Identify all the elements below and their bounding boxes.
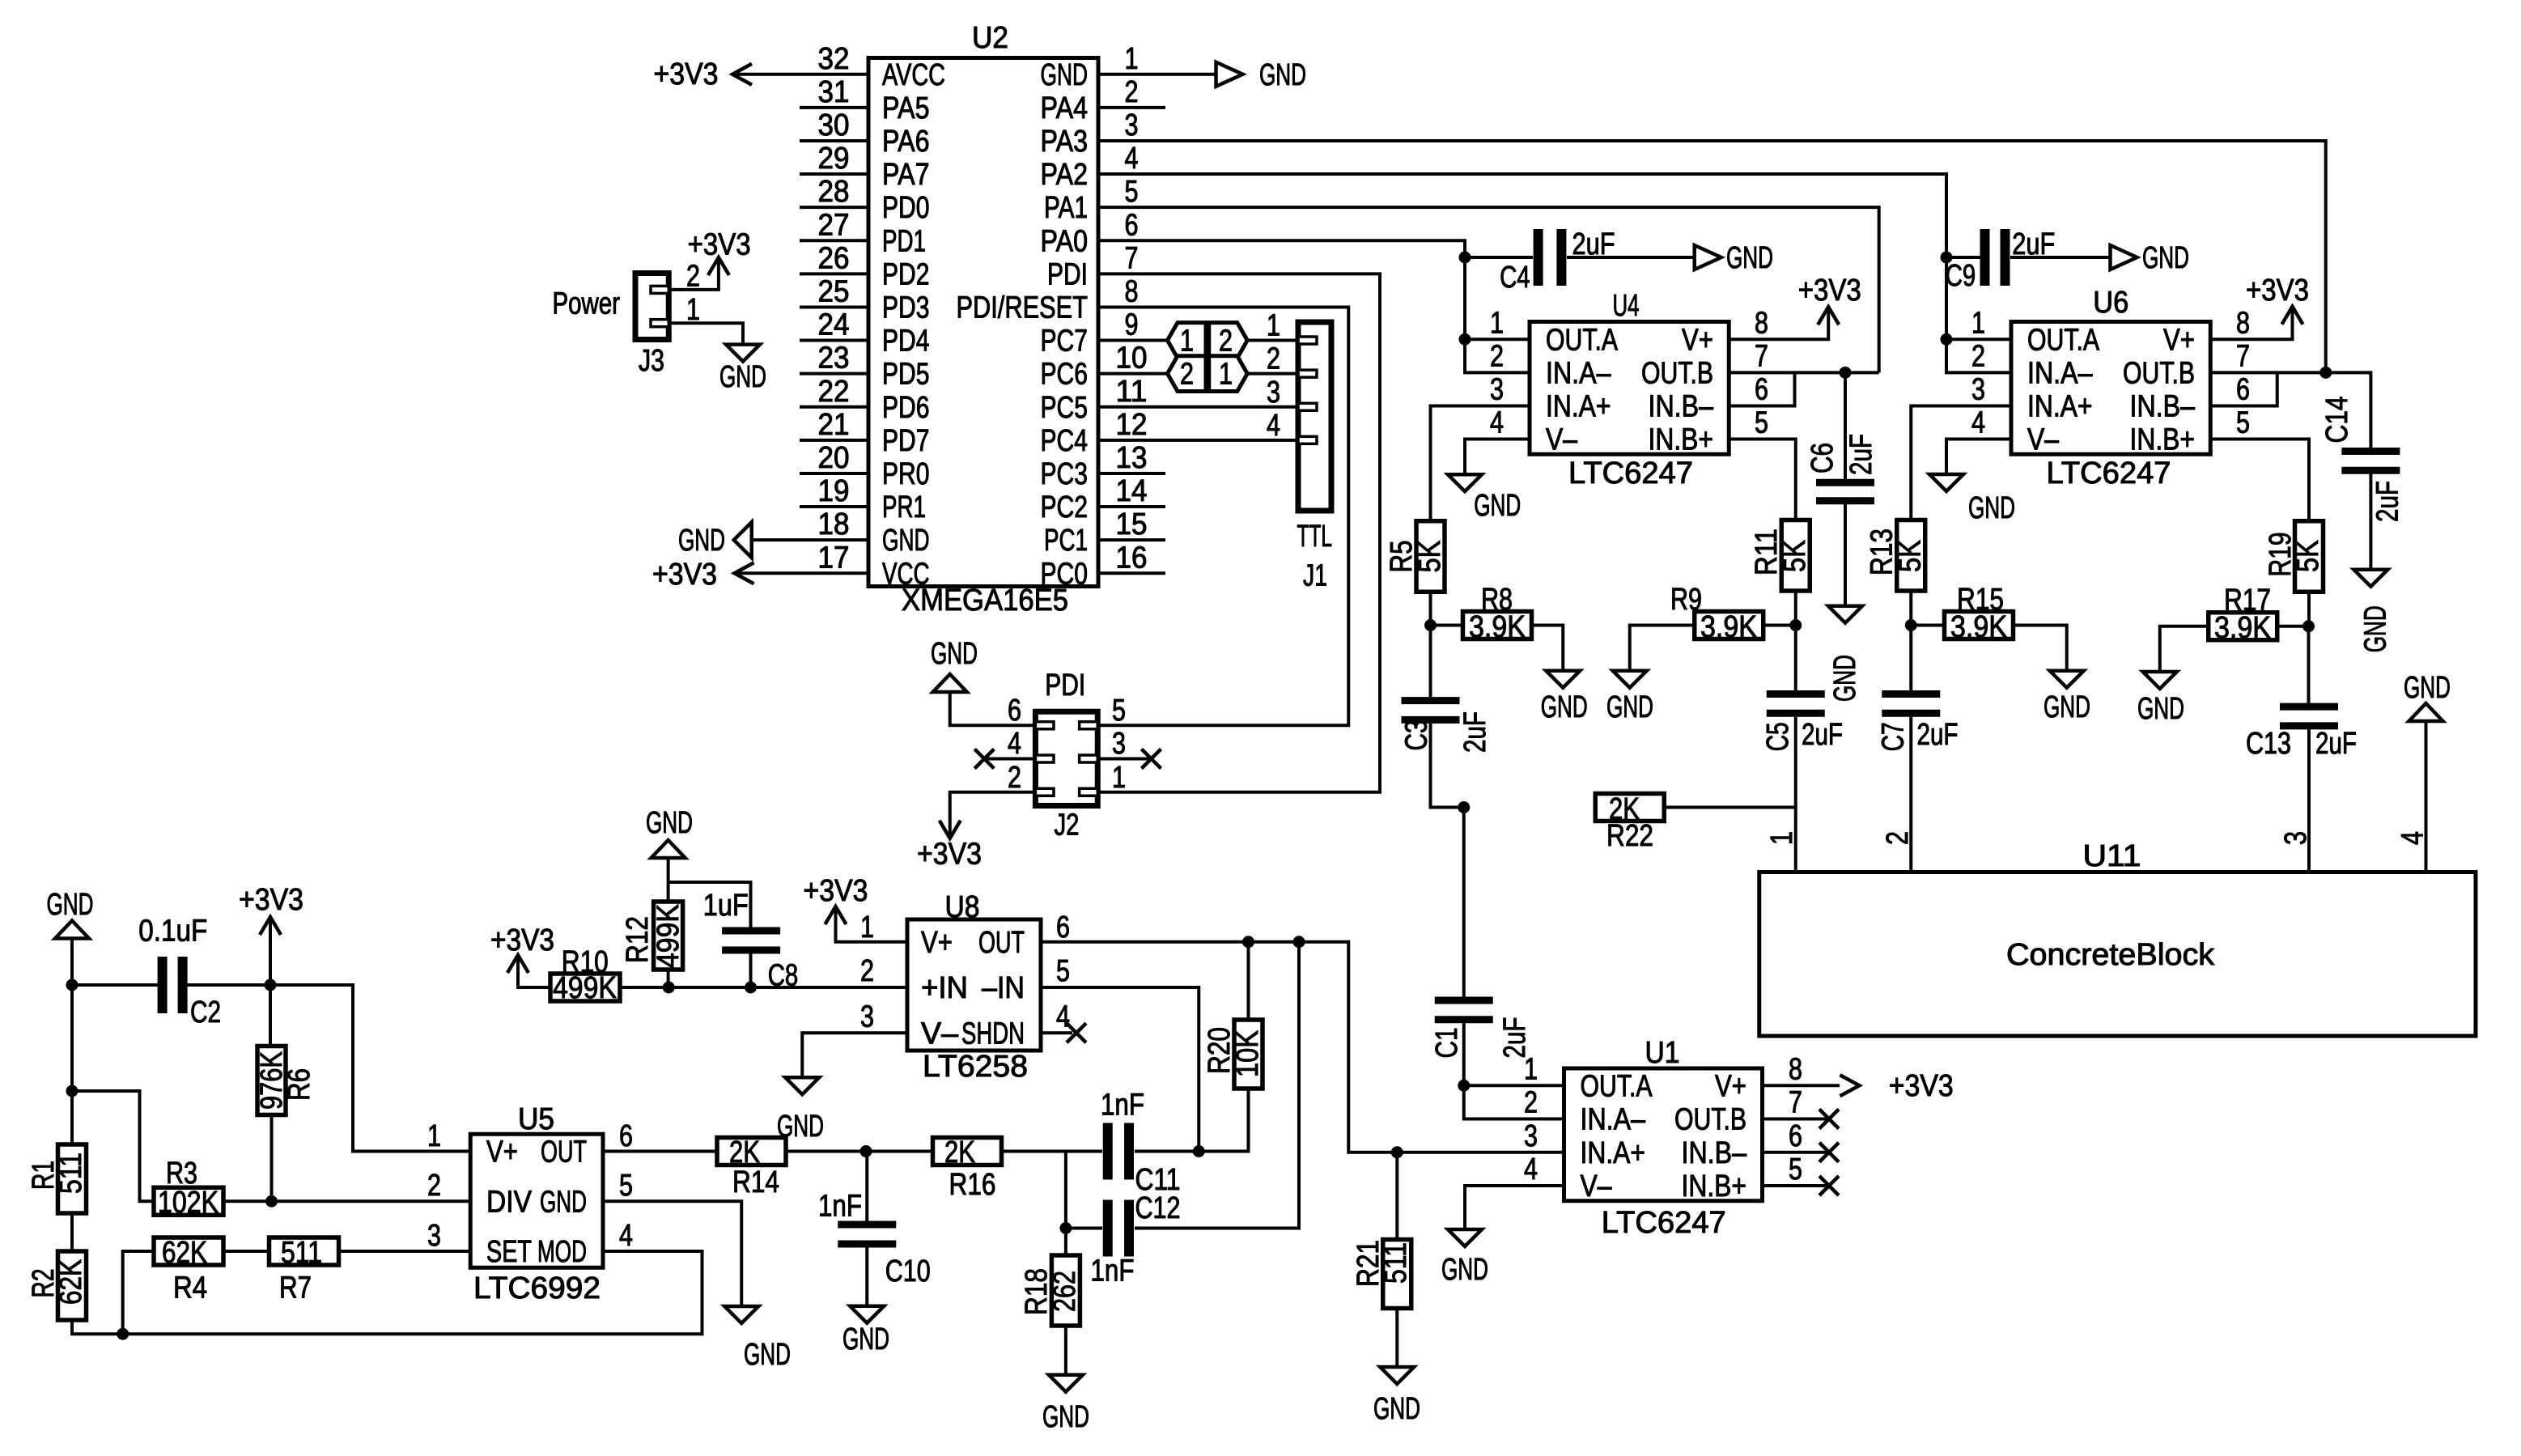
U2 pin 27 PD1 (left): [800, 239, 868, 242]
svg-text:4: 4: [1056, 1000, 1070, 1034]
svg-text:3.9K: 3.9K: [1469, 610, 1526, 644]
capacitor C3: [1402, 701, 1460, 720]
svg-text:GND: GND: [1259, 58, 1306, 92]
junction C12 net dot: [1059, 1222, 1072, 1234]
wire U1 pin1 OUT.A: [1464, 1084, 1564, 1087]
svg-text:GND: GND: [2142, 241, 2189, 275]
J3 pin 1 indicator: [651, 320, 668, 327]
wire R10 to U8 +IN: [620, 986, 751, 989]
wire J2 pin6 to GND: [950, 692, 1036, 725]
power symbol +3V3 at U8 pin1: [825, 906, 847, 924]
wire R4 branch from MOD loop: [123, 1251, 154, 1334]
wire R16 to C11: [1000, 1150, 1102, 1153]
resistor R13 5K: [1897, 520, 1925, 592]
svg-text:13: 13: [1116, 441, 1148, 475]
resistor R6 976K: [257, 1046, 286, 1115]
wire R1 to R2: [70, 1213, 74, 1251]
no-connect X at J2 pin4: [974, 749, 994, 769]
no-connect X at U1 pin6: [1819, 1143, 1839, 1162]
J2 left pin 4 indicator: [1035, 755, 1054, 762]
svg-text:8: 8: [1125, 274, 1139, 308]
svg-text:PC7: PC7: [1041, 325, 1089, 359]
svg-text:8: 8: [1755, 306, 1768, 340]
svg-text:2: 2: [1267, 342, 1280, 376]
wire DIV node to U5 pin2: [272, 1199, 471, 1203]
svg-text:4: 4: [1267, 409, 1280, 443]
global label GND at C9: [2111, 245, 2137, 270]
global label GND at C4: [1695, 245, 1721, 270]
svg-text:OUT.B: OUT.B: [1674, 1103, 1746, 1137]
svg-text:PD4: PD4: [882, 325, 930, 359]
junction C2 left: [66, 979, 79, 991]
svg-text:V–: V–: [1546, 423, 1578, 457]
U2 pin 20 PR0 (left): [800, 472, 868, 475]
resistor R2 62K: [58, 1251, 87, 1320]
svg-text:OUT.A: OUT.A: [1581, 1069, 1653, 1103]
capacitor C8 1uF: [722, 931, 780, 950]
wire junction to C5: [1794, 626, 1797, 691]
wire +3V3 node to U5 V+: [270, 985, 470, 1152]
svg-text:GND: GND: [540, 1185, 587, 1219]
svg-text:511: 511: [1379, 1242, 1413, 1284]
svg-text:+3V3: +3V3: [1798, 274, 1861, 308]
connector J2 PDI body: [1035, 711, 1097, 805]
wire R4 to R7: [223, 1250, 270, 1253]
svg-text:C14: C14: [2320, 397, 2354, 444]
wire PA3 net U2 pin3 to U6 OUT.B: [1098, 141, 2326, 372]
svg-text:20: 20: [818, 441, 850, 475]
wire branch to C12: [1064, 1152, 1067, 1229]
svg-text:5K: 5K: [2291, 540, 2325, 572]
net label 2 (hexagon) on PC7: [1209, 323, 1248, 359]
svg-text:PD7: PD7: [882, 424, 930, 458]
wire OUT.B node to capacitor C14: [2326, 372, 2371, 448]
wire -IN to C11 node: [1041, 987, 1199, 1152]
svg-text:C1: C1: [1430, 1028, 1464, 1059]
svg-text:1nF: 1nF: [1101, 1089, 1144, 1123]
wire U4 pin1: [1465, 337, 1530, 341]
U2 pin 30 PA6 (left): [800, 139, 868, 142]
svg-text:PC0: PC0: [1041, 557, 1089, 591]
wire GND to R12 top: [667, 858, 670, 902]
svg-text:3: 3: [1490, 372, 1504, 406]
IC U11 ConcreteBlock body: [1759, 872, 2476, 1037]
svg-text:21: 21: [818, 408, 850, 442]
svg-text:2: 2: [1180, 358, 1194, 392]
wire R21 top: [1395, 1152, 1398, 1240]
U2 pin 21 PD7 (left): [800, 439, 868, 442]
svg-text:PC3: PC3: [1041, 457, 1089, 491]
wire R20 top to OUT net: [1247, 944, 1250, 1020]
J1 pin 1 indicator: [1298, 337, 1317, 344]
svg-text:18: 18: [818, 507, 850, 541]
ground symbol at U1 pin4: [1448, 1229, 1482, 1246]
svg-text:7: 7: [1789, 1086, 1802, 1120]
svg-text:3: 3: [1125, 108, 1139, 142]
svg-text:U2: U2: [972, 21, 1008, 55]
svg-text:ConcreteBlock: ConcreteBlock: [2006, 938, 2215, 972]
svg-text:C2: C2: [190, 995, 221, 1029]
J2 pin4 no-connect stub: [984, 758, 1035, 761]
svg-text:J2: J2: [1055, 809, 1080, 843]
svg-text:GND: GND: [1041, 58, 1089, 92]
wire R7 to U5 pin3: [339, 1250, 471, 1253]
arrow +3V3 at U1 pin8: [1840, 1075, 1860, 1096]
wire U8 OUT net: [1041, 942, 1564, 1152]
svg-text:GND: GND: [1606, 690, 1653, 724]
wire U6 pin6 IN.B- feedback: [2210, 372, 2277, 405]
wire R5 to C3: [1429, 592, 1432, 697]
wire U2 pin9 PC7 to net tie: [1098, 339, 1168, 342]
resistor R4 62K: [154, 1237, 223, 1265]
capacitor C1: [1435, 1000, 1493, 1020]
svg-text:PDI/RESET: PDI/RESET: [957, 291, 1089, 325]
svg-text:6: 6: [1789, 1119, 1802, 1153]
svg-text:U11: U11: [2083, 839, 2141, 873]
svg-text:R14: R14: [732, 1165, 779, 1199]
net label 1 (hexagon) on PC7: [1168, 323, 1207, 359]
wire C1 to U1 pin1: [1462, 1023, 1466, 1085]
svg-text:PR1: PR1: [882, 490, 926, 524]
svg-text:R16: R16: [949, 1168, 996, 1202]
svg-text:511: 511: [54, 1152, 88, 1194]
wire U2 pin11 PC5 to J1 pin3: [1098, 405, 1298, 409]
svg-text:V–: V–: [921, 1017, 959, 1051]
svg-text:3: 3: [1524, 1119, 1538, 1153]
wire U1 pin8 V+ to +3V3 label: [1763, 1084, 1840, 1087]
wire J3 pin1 to GND: [668, 323, 743, 344]
junction U1 pin1: [1458, 1080, 1470, 1092]
svg-text:1: 1: [1125, 42, 1139, 76]
svg-text:OUT.A: OUT.A: [2027, 323, 2100, 357]
svg-text:2: 2: [1008, 761, 1021, 795]
junction C8 bottom: [745, 982, 757, 994]
svg-text:V+: V+: [2163, 323, 2195, 357]
capacitor C11 1nF: [1108, 1123, 1129, 1180]
svg-text:J1: J1: [1303, 559, 1327, 593]
svg-text:3.9K: 3.9K: [1950, 610, 2007, 644]
svg-text:1: 1: [427, 1119, 441, 1153]
wire C10 to GND: [865, 1248, 868, 1306]
svg-text:62K: 62K: [162, 1236, 207, 1270]
resistor R8 3.9K: [1463, 612, 1532, 639]
ground symbol (up) above R12: [651, 840, 685, 858]
svg-text:LT6258: LT6258: [923, 1050, 1028, 1084]
U2 pin 14 PC2 (right): [1098, 505, 1165, 508]
svg-text:GND: GND: [744, 1338, 791, 1372]
svg-text:PDI: PDI: [1047, 257, 1088, 291]
svg-text:IN.B+: IN.B+: [2130, 423, 2196, 457]
svg-text:29: 29: [818, 142, 850, 176]
svg-text:C9: C9: [1946, 259, 1976, 293]
svg-text:4: 4: [1524, 1152, 1538, 1186]
svg-text:GND: GND: [1441, 1253, 1488, 1287]
wire C9 to GND label: [2010, 256, 2111, 259]
svg-text:2uF: 2uF: [2371, 481, 2405, 522]
resistor R14 2K: [717, 1138, 786, 1165]
wire U6 pin4 V- to GND: [1946, 439, 2011, 473]
svg-text:GND: GND: [882, 524, 930, 558]
svg-text:LTC6247: LTC6247: [2047, 456, 2171, 490]
junction MOD loop / R4 branch: [117, 1328, 129, 1340]
wire U1 pin2 IN.A- feedback: [1464, 1085, 1564, 1119]
svg-text:IN.B+: IN.B+: [1649, 423, 1714, 457]
svg-text:15: 15: [1116, 507, 1148, 541]
U1 pin5 no-connect stub: [1763, 1184, 1830, 1187]
net label 1 (hexagon) on PC6: [1209, 356, 1248, 392]
svg-text:PD2: PD2: [882, 257, 930, 291]
svg-text:PA4: PA4: [1041, 91, 1089, 125]
svg-text:4: 4: [1490, 406, 1504, 440]
svg-text:GND: GND: [719, 360, 766, 394]
svg-text:TTL: TTL: [1297, 520, 1333, 554]
svg-text:2uF: 2uF: [1917, 718, 1959, 752]
svg-text:2: 2: [1219, 325, 1233, 359]
svg-text:5: 5: [1112, 694, 1126, 728]
svg-text:11: 11: [1116, 375, 1148, 409]
svg-text:C5: C5: [1761, 722, 1795, 751]
svg-text:V+: V+: [921, 926, 953, 960]
J2 left pin 2 indicator: [1035, 788, 1054, 796]
junction OUT net / R21: [1391, 1146, 1403, 1158]
svg-text:8: 8: [1789, 1052, 1802, 1086]
wire R14 to R16: [786, 1150, 933, 1153]
svg-text:7: 7: [2236, 339, 2250, 373]
svg-text:1: 1: [1219, 358, 1233, 392]
svg-text:PA3: PA3: [1041, 125, 1089, 159]
svg-text:+3V3: +3V3: [688, 228, 751, 262]
svg-text:14: 14: [1116, 474, 1148, 508]
svg-text:IN.B–: IN.B–: [1682, 1136, 1747, 1170]
svg-text:62K: 62K: [54, 1259, 88, 1305]
svg-text:1: 1: [1180, 325, 1194, 359]
ground symbol at U5 pin5: [724, 1306, 758, 1323]
wire U4 pin5 IN.B+ to R11: [1729, 439, 1796, 521]
junction R14/C10: [860, 1145, 872, 1157]
svg-text:SHDN: SHDN: [961, 1017, 1025, 1051]
wire U6 pin8 V+ to +3V3: [2210, 307, 2292, 340]
wire R22 to C5 node: [1663, 806, 1796, 809]
svg-text:1: 1: [1971, 306, 1985, 340]
svg-text:PR0: PR0: [882, 457, 930, 491]
U2 pin 13 PC3 (right): [1098, 472, 1165, 475]
J2 left pin 6 indicator: [1035, 722, 1054, 729]
svg-text:DIV: DIV: [486, 1185, 533, 1219]
svg-text:–IN: –IN: [982, 971, 1025, 1005]
svg-text:499K: 499K: [553, 971, 617, 1005]
svg-text:PC1: PC1: [1044, 524, 1088, 558]
svg-text:16: 16: [1116, 541, 1148, 575]
svg-text:1: 1: [1524, 1052, 1538, 1086]
svg-text:28: 28: [818, 175, 850, 209]
junction +3V3 / R6: [265, 979, 277, 991]
wire OUT.B to capacitor C6: [1844, 372, 1847, 479]
wire U6 pin2 IN.A- feedback: [1946, 339, 2011, 372]
wire PA2 net U2 pin4 to U6 left vertical: [1098, 174, 1946, 339]
U2 pin 23 PD5 (left): [800, 372, 868, 376]
ground symbol at C10: [850, 1306, 884, 1323]
wire U4 pin7 OUT.B: [1729, 371, 1878, 374]
wire U2 pin10 PC6 to net tie: [1098, 372, 1168, 376]
wire U5 pin5 GND: [603, 1201, 741, 1306]
wire U4 pin6 IN.B- feedback: [1729, 372, 1794, 405]
U2 pin 29 PA7 (left): [800, 172, 868, 176]
svg-text:U5: U5: [518, 1102, 554, 1136]
svg-text:GND: GND: [1541, 690, 1588, 724]
wire C14 to GND: [2369, 474, 2372, 570]
wire R9 left to GND: [1630, 626, 1695, 671]
ground symbol at C6: [1828, 606, 1862, 623]
wire +IN row: [751, 986, 908, 989]
svg-text:+3V3: +3V3: [2246, 274, 2309, 308]
ground symbol at C14: [2353, 570, 2387, 587]
svg-text:5: 5: [619, 1169, 633, 1203]
no-connect X at J2 pin3: [1142, 749, 1161, 769]
ground symbol at R21: [1380, 1367, 1414, 1384]
svg-text:2K: 2K: [729, 1136, 760, 1169]
wire R9 to junction: [1763, 624, 1796, 627]
svg-text:+IN: +IN: [921, 971, 968, 1005]
svg-text:6: 6: [2236, 372, 2250, 406]
svg-text:+3V3: +3V3: [490, 923, 554, 957]
svg-text:PD0: PD0: [882, 191, 930, 225]
svg-text:GND: GND: [678, 524, 725, 558]
wire C10 top: [865, 1152, 868, 1221]
capacitor C6: [1816, 482, 1874, 501]
wire C3 to R22 node: [1431, 724, 1464, 808]
svg-text:499K: 499K: [651, 904, 685, 968]
svg-text:C12: C12: [1135, 1191, 1181, 1225]
svg-text:5K: 5K: [1778, 540, 1812, 572]
global label GND at U2 pin1: [1216, 62, 1243, 87]
svg-text:PA2: PA2: [1041, 158, 1089, 192]
wire J2 pin2 to +3V3: [950, 792, 1036, 837]
junction on PA2 vertical at C9: [1941, 252, 1953, 264]
svg-text:IN.A–: IN.A–: [2027, 356, 2093, 390]
svg-text:3: 3: [1971, 372, 1985, 406]
wire U6 pin7 OUT.B: [2210, 371, 2326, 374]
svg-text:1: 1: [1112, 761, 1126, 795]
power label +3V3 at U2 pin17: [735, 562, 754, 584]
wire C11 right: [1135, 1089, 1249, 1152]
ground symbol at R17: [2143, 672, 2177, 689]
U2 pin 19 PR1 (left): [800, 505, 868, 508]
svg-text:3.9K: 3.9K: [2214, 611, 2271, 645]
U2 pin 25 PD3 (left): [800, 305, 868, 308]
svg-text:R6: R6: [282, 1068, 316, 1101]
svg-text:PC2: PC2: [1041, 490, 1089, 524]
wire R6 top: [269, 985, 272, 1046]
junction R5/R8/C3: [1424, 619, 1437, 631]
svg-text:PC4: PC4: [1041, 424, 1089, 458]
no-connect X at U1 pin7: [1819, 1110, 1839, 1129]
wire GND to C2 node: [70, 939, 74, 986]
connector J1 TTL body: [1298, 322, 1331, 511]
junction DIV node: [265, 1195, 278, 1208]
svg-text:OUT.B: OUT.B: [2123, 356, 2195, 390]
junction OUT.B / C6: [1840, 367, 1852, 379]
J1 pin 4 indicator: [1298, 436, 1317, 444]
svg-text:GND: GND: [47, 888, 94, 922]
wire R1 top: [70, 985, 74, 1144]
svg-text:GND: GND: [2404, 671, 2451, 705]
J2 right pin 1 indicator: [1080, 788, 1098, 796]
wire U8 pin4 SHDN stub: [1041, 1031, 1072, 1034]
wire U2 pin32 AVCC to +3V3 label: [735, 73, 868, 76]
junction R11/R9/C5: [1789, 619, 1802, 631]
ground symbol at R8: [1546, 671, 1580, 688]
ground symbol at U6 pin4: [1929, 474, 1963, 491]
svg-text:2: 2: [860, 954, 874, 988]
svg-text:5K: 5K: [1413, 541, 1447, 573]
IC U8 LT6258 body: [907, 919, 1041, 1051]
svg-text:V+: V+: [1682, 323, 1713, 357]
wire R21 to GND: [1395, 1309, 1398, 1368]
svg-text:R22: R22: [1606, 819, 1653, 853]
wire U6 pin1: [1946, 337, 2011, 341]
resistor R21 511: [1383, 1240, 1411, 1309]
svg-text:PC6: PC6: [1041, 358, 1089, 392]
svg-text:2uF: 2uF: [1458, 711, 1492, 753]
svg-text:PD3: PD3: [882, 291, 930, 325]
J2 right pin 5 indicator: [1080, 722, 1098, 729]
op-amp U6 LTC6247 body: [2011, 322, 2210, 455]
svg-text:6: 6: [619, 1119, 633, 1153]
svg-text:MOD: MOD: [537, 1235, 587, 1269]
wire R2 bottom to MOD loop: [72, 1251, 702, 1334]
wire U2 pin12 PC4 to J1 pin4: [1098, 439, 1298, 442]
wire U8 pin3 V- to GND: [802, 1033, 907, 1077]
U2 pin 31 PA5 (left): [800, 106, 868, 109]
wire junction to R8: [1431, 624, 1463, 627]
svg-text:+3V3: +3V3: [239, 883, 303, 917]
junction R13/R15/C7: [1905, 619, 1917, 631]
svg-text:IN.A–: IN.A–: [1581, 1103, 1646, 1137]
svg-text:5K: 5K: [1894, 540, 1928, 572]
wire R17 to GND: [2160, 626, 2209, 672]
svg-text:+3V3: +3V3: [804, 874, 868, 908]
svg-text:9: 9: [1125, 308, 1139, 342]
svg-text:PDI: PDI: [1045, 669, 1085, 703]
svg-text:+3V3: +3V3: [1889, 1069, 1954, 1103]
svg-text:32: 32: [818, 42, 850, 76]
resistor R9 3.9K: [1695, 612, 1763, 639]
capacitor C9: [1985, 229, 2005, 286]
wire C12 right to OUT net: [1135, 944, 1299, 1229]
U2 pin 22 PD6 (left): [800, 405, 868, 409]
svg-text:GND: GND: [931, 637, 978, 671]
svg-text:U1: U1: [1645, 1036, 1680, 1070]
svg-text:2uF: 2uF: [2315, 727, 2357, 761]
svg-text:31: 31: [818, 75, 850, 109]
svg-text:IN.A+: IN.A+: [1546, 389, 1611, 423]
svg-text:V–: V–: [1581, 1169, 1613, 1203]
svg-text:C8: C8: [768, 959, 799, 993]
svg-text:IN.B–: IN.B–: [1649, 389, 1714, 423]
wire +3V3 to U8 V+: [836, 906, 908, 942]
svg-text:GND: GND: [1042, 1400, 1089, 1434]
svg-text:3: 3: [860, 1000, 874, 1034]
resistor R18 262: [1051, 1255, 1080, 1326]
U2 pin 15 PC1 (right): [1098, 538, 1165, 541]
svg-text:OUT: OUT: [541, 1136, 587, 1169]
resistor R22 2K: [1595, 794, 1664, 821]
wire R6 bottom to DIV node: [270, 1115, 274, 1202]
svg-text:2: 2: [1971, 339, 1985, 373]
svg-text:511: 511: [281, 1236, 322, 1270]
svg-text:U4: U4: [1613, 289, 1640, 323]
power symbol +3V3 at C2 node: [269, 917, 272, 985]
